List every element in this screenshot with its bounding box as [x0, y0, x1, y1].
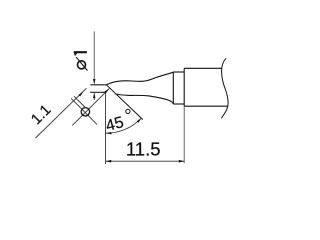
1.1 arrow on L2 [104, 88, 109, 93]
svg-text:11.5: 11.5 [126, 139, 161, 160]
arc arrow at 45 line end [137, 118, 142, 123]
dia1 dim vertical tail bottom [93, 98, 95, 100]
band top edge [173, 71, 184, 73]
11.5 right extension line [183, 106, 185, 163]
arc arrow at vertical line end [106, 132, 112, 134]
bevel face 45 line extended as angle leg [106, 85, 142, 120]
svg-text:1.1: 1.1 [28, 101, 55, 128]
text dia1 digit 1: stem [74, 51, 87, 53]
aux view circle [81, 108, 89, 116]
11.5 left arrow [106, 160, 112, 163]
45 angle arc [106, 118, 142, 133]
sleeve left edge [183, 68, 185, 106]
11.5 dimension line [106, 160, 185, 162]
svg-text:45: 45 [104, 114, 126, 135]
text dia1 symbol: ring [78, 61, 86, 69]
band bottom edge [173, 103, 184, 105]
dia1 up arrow [93, 92, 95, 98]
1.1 arrow on L1 [79, 92, 84, 97]
dia1 down arrow [93, 79, 95, 85]
tip bottom profile [116, 94, 174, 104]
text dia1 symbol: slash [76, 57, 87, 70]
text 45 degree ring [126, 109, 130, 113]
sleeve top edge [184, 67, 222, 69]
11.5 right arrow [179, 160, 185, 163]
band left edge [172, 72, 174, 104]
break S-curve [221, 58, 228, 118]
11.5 left extension line (angle vertex vertical) [105, 92, 107, 164]
dia1 lower tick [90, 91, 105, 93]
1.1 dim line L2 through circle [72, 88, 109, 125]
aux axis line m1 [71, 98, 97, 124]
1.1 dim line L1 [36, 88, 87, 138]
tip top profile [106, 72, 173, 85]
dia1 dim vertical line top [93, 32, 95, 80]
aux axis line m2 [74, 96, 86, 108]
dia1 upper tick [90, 84, 106, 86]
text dia1 digit 1: flag [74, 51, 78, 56]
sleeve bottom edge [184, 105, 228, 107]
